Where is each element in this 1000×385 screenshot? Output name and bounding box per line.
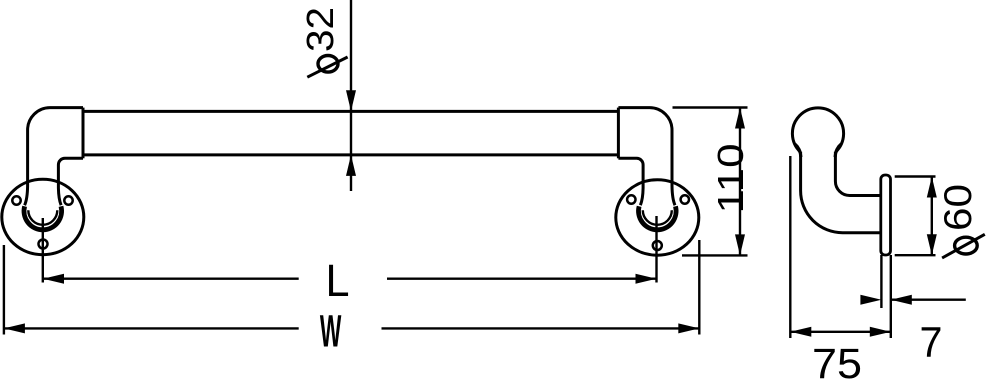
right elbow (front view) (618, 108, 675, 206)
dimension phi60 arrow up (927, 177, 937, 198)
dimension phi60 extension bottom (895, 254, 936, 256)
dimension L arrow left (43, 274, 64, 284)
dimension 110 line (739, 108, 741, 256)
dimension phi32 arrow up (346, 155, 356, 176)
dimension phi60 extension top (895, 175, 936, 177)
dimension W arrow right (678, 323, 699, 333)
dimension 110 label (710, 144, 751, 214)
side view bracket inner profile (835, 152, 880, 196)
dimension 75 arrow right (870, 327, 891, 337)
dimension phi32 line (350, 0, 352, 191)
svg-text:32: 32 (300, 7, 342, 52)
grab bar straight tube (front view) (83, 111, 618, 154)
dimension W arrow left (4, 323, 25, 333)
svg-text:L: L (326, 255, 350, 306)
dimension 7 extension left (880, 255, 882, 308)
side view neck fillet left (795, 144, 801, 157)
right flange screw holes (627, 195, 635, 203)
centerline right flange (655, 216, 657, 283)
dimension W line (4, 327, 299, 329)
phi symbol of phi60 (955, 237, 978, 254)
dimension 110 extension top (673, 106, 748, 108)
svg-text:7: 7 (920, 319, 943, 367)
right wall flange (front view) (616, 180, 699, 255)
dimension 7 arrow pointing left with tail (891, 295, 912, 305)
left elbow (front view) (25, 108, 83, 206)
phi symbol of phi32 (318, 56, 338, 73)
svg-text:75: 75 (812, 341, 862, 380)
dimension 75 arrow left (790, 327, 811, 337)
left flange socket U-collar (24, 206, 62, 230)
dimension W extension right (698, 240, 700, 335)
svg-text:110: 110 (710, 144, 751, 214)
dimension 110 arrow down (735, 234, 745, 255)
dimension phi32 arrow down (346, 90, 356, 111)
dimension 7 extension right (890, 255, 892, 338)
side view bracket outer profile (801, 152, 881, 233)
right flange socket U-collar (639, 206, 677, 230)
side view bar end circle (792, 108, 843, 152)
centerline left flange (42, 218, 44, 283)
dimension phi60 arrow down (927, 234, 937, 255)
dimension W extension left (3, 245, 5, 335)
side view neck fillet right (835, 144, 841, 157)
dimension L line (43, 278, 299, 280)
svg-text:60: 60 (937, 184, 980, 231)
dimension 7 arrow pointing right (860, 295, 881, 305)
dimension phi32 label (300, 7, 342, 52)
dimension 110 extension bottom (682, 254, 748, 256)
dimension 75 line (790, 331, 891, 333)
dimension 75 extension line (789, 156, 791, 338)
dimension phi60 label (937, 184, 980, 231)
dimension 110 arrow up (735, 108, 745, 129)
left wall flange (front view) (2, 179, 84, 254)
side view wall flange plate (881, 175, 891, 255)
svg-text:W: W (320, 305, 342, 356)
dimension L arrow right (636, 274, 657, 284)
dimension phi60 line (931, 177, 933, 256)
left flange screw holes (12, 196, 20, 204)
